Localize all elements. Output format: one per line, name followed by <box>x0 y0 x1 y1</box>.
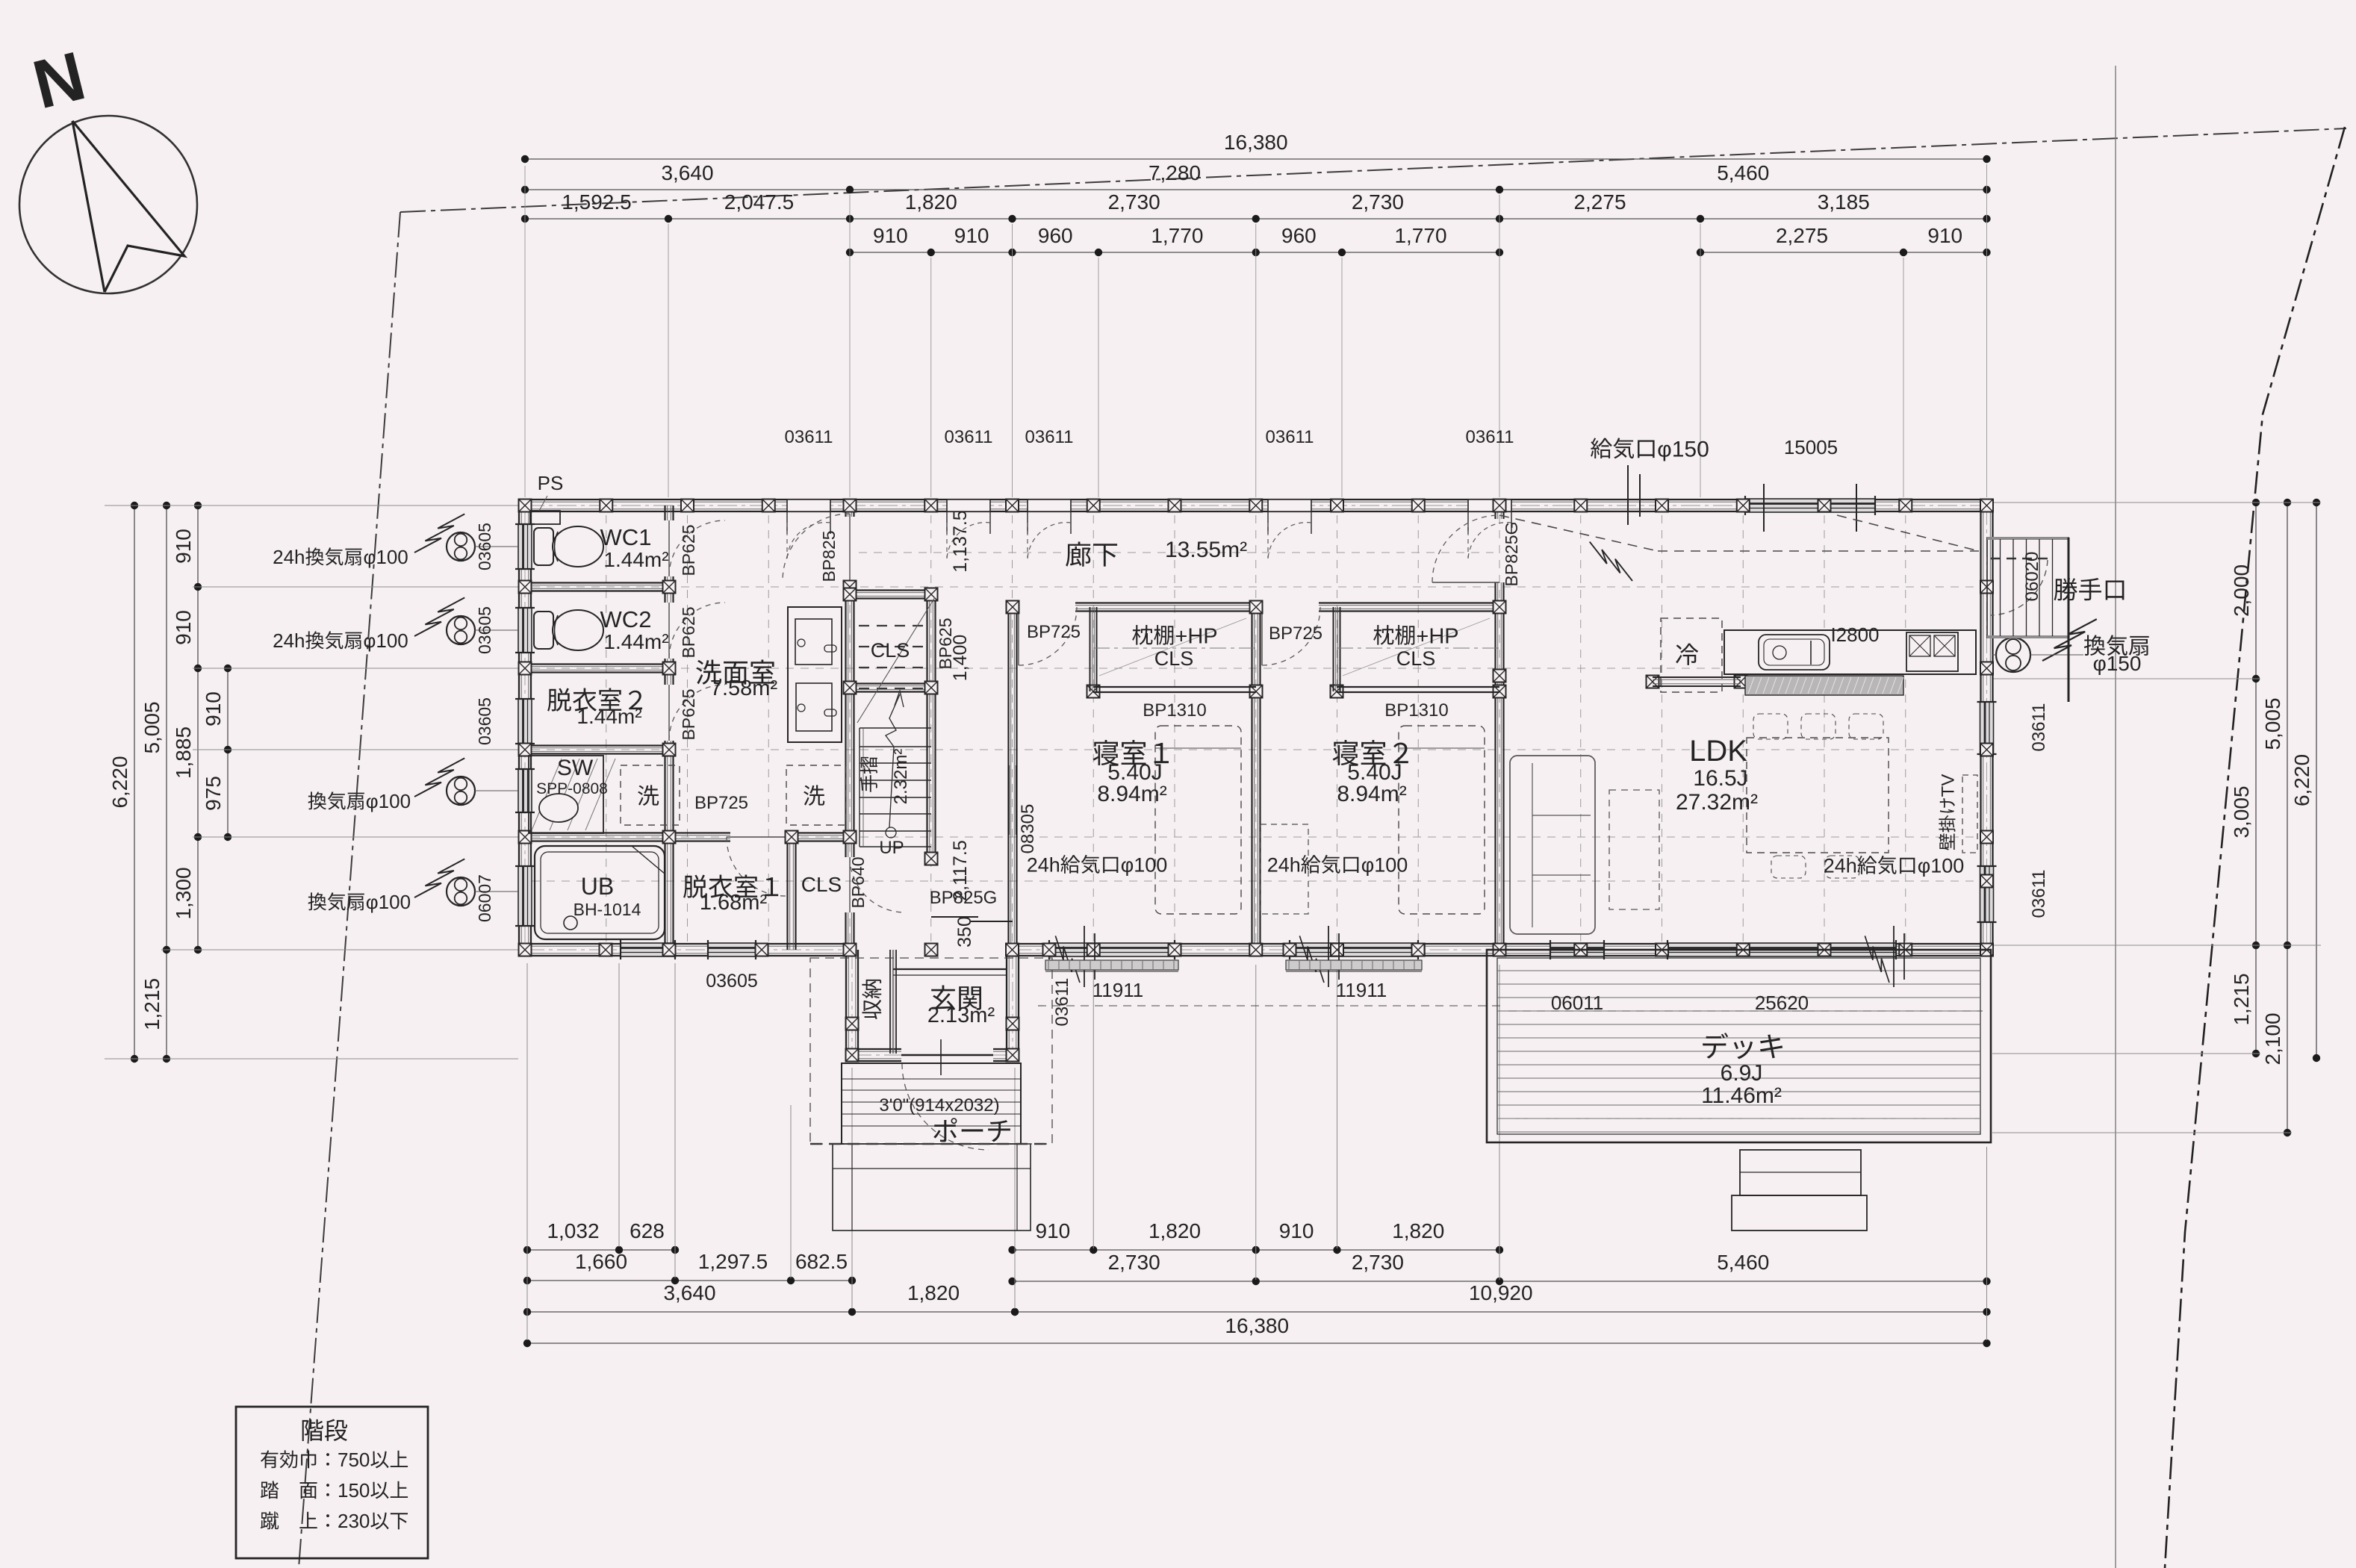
dining table dashed <box>1747 738 1889 853</box>
svg-text:5,460: 5,460 <box>1717 161 1769 184</box>
svg-text:910: 910 <box>172 529 195 564</box>
label rouka <box>1066 542 1117 567</box>
washer box 2 <box>786 765 845 825</box>
genkan block south wall <box>852 1048 901 1050</box>
door datsui1 BP725 <box>727 836 786 838</box>
svg-text:8.94m²: 8.94m² <box>1337 782 1406 806</box>
svg-text:1,297.5: 1,297.5 <box>698 1250 768 1273</box>
corridor swing windows 03611 <box>787 500 830 511</box>
wall datsui2/SW <box>525 744 669 746</box>
wall datsui1 CLS divider <box>786 837 788 950</box>
svg-text:24h: 24h <box>1824 855 1857 877</box>
svg-text:03611: 03611 <box>1052 978 1072 1027</box>
svg-text:16.5J: 16.5J <box>1693 766 1747 791</box>
svg-text:6,220: 6,220 <box>2290 754 2313 806</box>
svg-text:φ150: φ150 <box>2093 652 2142 675</box>
svg-text:03611: 03611 <box>1025 427 1074 447</box>
bottom dimension row 910/1,820/910/1,820 <box>1013 1249 1500 1251</box>
fan kitchen east <box>1996 638 2030 672</box>
top dimension row 3,640 / 7,280 / 5,460 <box>525 189 1987 190</box>
svg-text:2,730: 2,730 <box>1108 190 1160 214</box>
svg-text:3,005: 3,005 <box>2230 785 2253 838</box>
fan WC2 24h <box>447 616 475 644</box>
svg-text:2,047.5: 2,047.5 <box>724 190 794 214</box>
svg-text:1.44m²: 1.44m² <box>576 705 641 728</box>
bedroom2 air inlet <box>1328 926 1329 987</box>
north arrow compass <box>19 116 197 293</box>
svg-text:910: 910 <box>172 610 195 645</box>
svg-text:+HP: +HP <box>1416 624 1458 648</box>
svg-text:1,032: 1,032 <box>547 1219 599 1242</box>
wall WC2/datsui2 <box>525 663 669 665</box>
svg-text:910: 910 <box>1036 1219 1071 1242</box>
toilet WC2 <box>534 612 553 649</box>
svg-text:UP: UP <box>879 838 904 858</box>
door datsui2 to senmen BP625 <box>668 685 670 741</box>
genkan agarikamachi step <box>893 968 1007 970</box>
svg-text:2,275: 2,275 <box>1776 224 1828 247</box>
svg-text:628: 628 <box>630 1219 665 1242</box>
svg-text:03611: 03611 <box>1466 427 1514 447</box>
window datsui1 south 03605 <box>708 943 756 956</box>
bedroom1 west wall <box>1007 607 1009 950</box>
svg-text:BP640: BP640 <box>848 856 868 908</box>
label datsuishitsu1 <box>683 875 778 898</box>
svg-text:1,770: 1,770 <box>1394 224 1446 247</box>
south exterior wall west wing <box>525 943 850 945</box>
svg-text:11.46m²: 11.46m² <box>1701 1083 1782 1108</box>
label genkan <box>931 985 981 1009</box>
window UB south <box>621 943 675 956</box>
left dimension column 6,220 <box>134 505 135 1059</box>
corridor centre dashed line <box>859 552 1494 553</box>
left dimension column 910/975 <box>227 668 229 837</box>
svg-text:1,820: 1,820 <box>907 1281 960 1304</box>
door kitchen back door <box>1991 558 2048 560</box>
svg-text:27.32m²: 27.32m² <box>1676 790 1758 815</box>
svg-text:1,820: 1,820 <box>905 190 957 214</box>
svg-text:1,885: 1,885 <box>172 727 195 779</box>
svg-text:5,460: 5,460 <box>1717 1251 1769 1274</box>
label katteguchi <box>2054 578 2125 600</box>
svg-text:1,820: 1,820 <box>1149 1219 1201 1242</box>
svg-text:7.58m²: 7.58m² <box>710 676 778 700</box>
wall WC1/WC2 <box>525 582 669 583</box>
svg-text:φ100: φ100 <box>366 891 411 913</box>
window east 03611 lower <box>1980 866 1994 922</box>
label senmenshitsu <box>696 660 774 685</box>
svg-text:16,380: 16,380 <box>1224 131 1288 154</box>
label bedroom2 <box>1333 740 1408 765</box>
genkan entrance door <box>901 1054 993 1057</box>
top dimension row 1,592.5 ... 3,185 <box>525 218 1987 220</box>
svg-text:1,660: 1,660 <box>575 1250 627 1273</box>
svg-text:BP625: BP625 <box>679 606 698 658</box>
bottom dimension row 16,380 <box>527 1343 1987 1344</box>
svg-text:3,640: 3,640 <box>663 1281 715 1304</box>
label closet2 <box>1373 624 1458 648</box>
svg-text:CLS: CLS <box>871 639 910 662</box>
deck label <box>1703 1033 1782 1059</box>
toilet WC1 <box>534 528 553 565</box>
label porch <box>933 1118 1010 1142</box>
svg-text:φ100: φ100 <box>364 546 408 568</box>
svg-text:SPP-0808: SPP-0808 <box>536 780 608 797</box>
kitchen stove <box>1906 632 1958 671</box>
porch steps <box>842 1063 1021 1144</box>
svg-text:10,920: 10,920 <box>1469 1281 1533 1304</box>
top extension lines <box>524 166 526 497</box>
bedroom1 air inlet <box>1084 926 1085 987</box>
svg-text:2,730: 2,730 <box>1108 1251 1160 1274</box>
door bedroom2 BP725 <box>1261 607 1263 665</box>
stairs up arrow <box>889 747 894 827</box>
top dimension row 910 ... 910 <box>850 252 1499 253</box>
label bedroom1 <box>1093 740 1169 765</box>
svg-text:CLS: CLS <box>1396 647 1436 670</box>
window WC1 west 03605 <box>518 524 532 569</box>
site line vertical right (solid) <box>2115 66 2116 1568</box>
svg-text:682.5: 682.5 <box>795 1250 848 1273</box>
svg-text:1,137.5: 1,137.5 <box>950 510 971 572</box>
svg-text:910: 910 <box>873 224 908 247</box>
svg-text:2.13m²: 2.13m² <box>927 1004 995 1027</box>
LDK west wall <box>1494 505 1496 519</box>
window bedroom2 south 11911 <box>1290 943 1418 956</box>
right dimension column 2,000/3,005/1,215 <box>2255 503 2257 1054</box>
svg-text:08305: 08305 <box>1018 804 1038 854</box>
door WC1 to senmen BP625 <box>668 520 670 576</box>
pocket window hall wall 08305 <box>1008 765 1010 835</box>
label kabegake TV rotated <box>1939 774 1959 850</box>
svg-text:06007: 06007 <box>475 874 494 922</box>
svg-text:8.94m²: 8.94m² <box>1097 782 1166 806</box>
bed bedroom1 dashed <box>1155 726 1241 914</box>
svg-text:975: 975 <box>202 776 225 811</box>
svg-text:16,380: 16,380 <box>1225 1314 1289 1337</box>
LDK range hood duct dashes <box>1499 515 1658 551</box>
svg-text:11911: 11911 <box>1092 979 1143 1001</box>
svg-text:24h: 24h <box>1027 854 1060 877</box>
door WC2 to senmen BP625 <box>668 603 670 659</box>
wall TV dashed <box>1962 775 1977 853</box>
svg-text:BP1310: BP1310 <box>1384 700 1448 721</box>
right dimension column 6,220 <box>2316 503 2317 1058</box>
sofa <box>1510 756 1595 934</box>
svg-text:2,100: 2,100 <box>2261 1012 2284 1065</box>
wall SW/UB <box>525 832 669 833</box>
bottom dimension row 3,640/1,820/10,920 <box>527 1311 1015 1313</box>
svg-text:03605: 03605 <box>706 971 758 992</box>
svg-text:03611: 03611 <box>2029 870 2049 918</box>
east exterior wall <box>1980 505 1981 950</box>
north exterior wall <box>525 499 1987 500</box>
svg-text:BH-1014: BH-1014 <box>574 900 641 919</box>
labels kankisen west <box>273 546 408 568</box>
left dimension column 910/910/1,885/1,300 <box>197 505 199 950</box>
kitchen peninsula wall <box>1653 676 1741 678</box>
window bedroom1 south 11911 <box>1049 943 1175 956</box>
svg-text:6,220: 6,220 <box>108 756 131 808</box>
svg-text:2,730: 2,730 <box>1352 190 1404 214</box>
svg-text:910: 910 <box>202 691 225 727</box>
svg-text:350: 350 <box>954 916 975 948</box>
svg-text:910: 910 <box>954 224 989 247</box>
svg-text:WC2: WC2 <box>600 606 652 632</box>
door LDK BP825G swing <box>1432 582 1499 583</box>
svg-text:BP825G: BP825G <box>1502 522 1521 587</box>
svg-text:WC1: WC1 <box>600 524 652 550</box>
right dimension column 5,005 / 2,100 <box>2287 503 2288 1133</box>
svg-text:11911: 11911 <box>1336 979 1387 1001</box>
genkan block west wall <box>845 950 847 1055</box>
wall stairs east (vertical) <box>926 594 927 859</box>
svg-text:1.44m²: 1.44m² <box>603 630 668 653</box>
svg-text:TV: TV <box>1939 774 1959 797</box>
svg-text:03611: 03611 <box>2029 703 2049 752</box>
PS pipe shaft <box>530 511 560 524</box>
svg-text:2,275: 2,275 <box>1573 190 1626 214</box>
svg-text:+HP: +HP <box>1175 624 1217 648</box>
label datsuishitsu2 <box>547 688 642 712</box>
svg-text:7,280: 7,280 <box>1149 161 1201 184</box>
window sill bedroom2 <box>1286 965 1422 966</box>
genkan block east wall <box>1006 950 1007 1055</box>
porch roof overhang dashed <box>810 958 1052 1144</box>
svg-text:LDK: LDK <box>1689 735 1747 768</box>
svg-text:1,592.5: 1,592.5 <box>562 190 631 214</box>
bedroom divider wall <box>1251 607 1252 950</box>
interior module grid dashed <box>606 515 607 942</box>
deck steps <box>1740 1150 1861 1195</box>
svg-text:24h: 24h <box>1267 854 1301 877</box>
labels air inlets <box>1027 854 1168 877</box>
SW slop sink <box>529 756 603 833</box>
wall closet hall top <box>850 589 931 591</box>
svg-text:750: 750 <box>338 1449 370 1471</box>
svg-text:1,215: 1,215 <box>2230 973 2253 1025</box>
svg-text:φ100: φ100 <box>1361 854 1408 877</box>
dining chairs dashed <box>1753 714 1788 739</box>
label shuunou <box>862 980 881 1019</box>
svg-text:3'0"(914x2032): 3'0"(914x2032) <box>879 1095 999 1116</box>
bottom extension lines <box>526 963 528 1340</box>
window WC2 west 03605 <box>518 608 532 653</box>
dashed sill line south <box>1038 1005 1501 1007</box>
window east 03611 upper <box>1980 702 1994 754</box>
svg-text:6.9J: 6.9J <box>1721 1061 1763 1086</box>
west exterior wall <box>518 505 520 950</box>
kitchen sink <box>1759 635 1830 670</box>
vanity sink 1 <box>795 619 832 665</box>
svg-text:910: 910 <box>1927 224 1962 247</box>
site boundary east (dash-dot) <box>2165 127 2345 1568</box>
svg-text:15005: 15005 <box>1784 436 1838 458</box>
label kyuukiou top <box>1591 438 1709 462</box>
svg-text:150: 150 <box>338 1479 370 1502</box>
svg-text:CLS: CLS <box>801 873 842 896</box>
left dimension column 5,005 / 1,215 <box>166 505 167 1059</box>
bottom dimension row 1,032/628 <box>527 1249 675 1251</box>
window datsui2 west 03605 <box>518 699 532 744</box>
fan WC1 24h <box>447 532 475 561</box>
svg-text:1,770: 1,770 <box>1151 224 1203 247</box>
stairs steps <box>860 727 931 729</box>
svg-text:03605: 03605 <box>475 697 494 745</box>
svg-text:BP725: BP725 <box>694 793 748 813</box>
svg-text:BP725: BP725 <box>1027 622 1081 642</box>
door bedroom1 BP725 <box>1018 607 1019 665</box>
deck <box>1487 950 1991 1142</box>
svg-text:2,730: 2,730 <box>1352 1251 1404 1274</box>
bed bedroom2 dashed <box>1399 726 1485 914</box>
label tesuri rotated <box>860 757 877 792</box>
fridge dashed <box>1661 618 1722 692</box>
top dimension row 16,380 <box>525 158 1987 160</box>
bottom dimension row 2,730/2,730/5,460 <box>1013 1281 1987 1282</box>
south exterior wall bedrooms-LDK <box>1013 943 1987 945</box>
svg-text:960: 960 <box>1038 224 1073 247</box>
svg-text:PS: PS <box>538 472 564 494</box>
svg-text:1,215: 1,215 <box>140 978 164 1030</box>
wall closet hall bottom <box>850 682 931 684</box>
fan UB <box>447 877 475 906</box>
closet hall shelf dashes <box>859 625 926 626</box>
window kitchen north 15005 <box>1745 499 1875 512</box>
svg-text:5,005: 5,005 <box>140 701 164 753</box>
svg-text:5,005: 5,005 <box>2261 697 2284 750</box>
door senmen to corridor BP825 <box>849 514 851 581</box>
closet bedroom1 <box>1090 607 1091 691</box>
LDK air inlet <box>1893 926 1895 987</box>
svg-text:1,400: 1,400 <box>950 635 971 682</box>
site boundary west (dash-dot) <box>299 212 400 1568</box>
stairs legend box <box>236 1407 428 1558</box>
kitchen counter I2800 <box>1724 630 1976 674</box>
sliding door LDK deck 25620 <box>1667 943 1896 956</box>
svg-text:SW: SW <box>557 756 594 780</box>
window SW west <box>518 769 532 812</box>
label closet1 <box>1132 624 1217 648</box>
svg-text:1,300: 1,300 <box>172 867 195 919</box>
closet bedroom2 <box>1333 607 1334 691</box>
svg-text:1.44m²: 1.44m² <box>603 548 668 571</box>
svg-text:24h: 24h <box>273 546 305 568</box>
sill band bedroom2 <box>1286 960 1422 970</box>
bottom dimension row 1,660/1,297.5/682.5 <box>527 1280 852 1281</box>
fan SW <box>447 777 475 805</box>
svg-text:I2800: I2800 <box>1830 623 1879 646</box>
svg-text:1,820: 1,820 <box>1392 1219 1444 1242</box>
sill band bedroom1 <box>1045 960 1178 970</box>
svg-text:BP825: BP825 <box>819 530 839 582</box>
wall senmen right / stairs (vertical) <box>845 505 846 517</box>
svg-text:24h: 24h <box>273 629 305 652</box>
svg-text:2,000: 2,000 <box>2230 564 2253 617</box>
site boundary north (dash-dot) <box>400 128 2346 212</box>
left extension lines <box>105 505 518 506</box>
svg-text:910: 910 <box>1279 1219 1314 1242</box>
svg-text:φ150: φ150 <box>1657 438 1709 462</box>
genkan shuunou partition <box>889 950 891 1054</box>
svg-text:2.32m²: 2.32m² <box>891 749 911 805</box>
porch apron <box>833 1144 1031 1231</box>
svg-text:03611: 03611 <box>1266 427 1314 447</box>
right extension lines <box>1992 502 2321 503</box>
svg-text:03611: 03611 <box>785 427 833 447</box>
coffee table dashed <box>1609 790 1659 909</box>
vanity counter <box>788 607 842 742</box>
svg-text:φ100: φ100 <box>1918 855 1965 877</box>
wall west wing / senmen (vertical) <box>664 505 665 520</box>
svg-text:φ100: φ100 <box>364 629 408 652</box>
window LDK south 06011 <box>1550 943 1604 956</box>
svg-text:06020: 06020 <box>2022 552 2042 602</box>
kyuukiou duct top <box>1627 465 1629 525</box>
svg-text:1.68m²: 1.68m² <box>700 891 768 915</box>
svg-text:03605: 03605 <box>475 606 494 654</box>
svg-text:3,185: 3,185 <box>1818 190 1870 214</box>
svg-text:230: 230 <box>338 1510 370 1532</box>
svg-text:UB: UB <box>581 873 614 900</box>
svg-text:03605: 03605 <box>475 523 494 570</box>
svg-text:2,117.5: 2,117.5 <box>950 840 971 901</box>
svg-text:φ100: φ100 <box>1121 854 1168 877</box>
kitchen window mullion ticks <box>1763 484 1765 532</box>
svg-text:960: 960 <box>1281 224 1317 247</box>
top dimension row right 2,275 / 910 <box>1700 252 1987 253</box>
wall senmen/datsui1 <box>669 832 730 833</box>
svg-text:BP625: BP625 <box>679 688 698 740</box>
window sill bedroom1 <box>1045 965 1178 966</box>
svg-text:BP1310: BP1310 <box>1143 700 1206 721</box>
wall posts <box>519 500 532 512</box>
hall sliding door BP825G <box>931 916 978 918</box>
bedroom north wall <box>1013 602 1019 603</box>
window UB west 06007 <box>518 866 532 926</box>
vanity sink 2 <box>796 683 832 731</box>
svg-text:BP625: BP625 <box>679 524 698 576</box>
svg-text:03611: 03611 <box>945 427 993 447</box>
katteguchi steps <box>1987 538 2069 638</box>
door hall BP640 <box>849 857 851 912</box>
UB bathtub BH-1014 <box>535 846 665 939</box>
svg-text:3,640: 3,640 <box>661 161 713 184</box>
bedside dashed bedroom1 <box>1261 824 1308 914</box>
svg-text:φ100: φ100 <box>366 790 411 812</box>
washer box 1 <box>621 765 680 825</box>
kitchen counter hatch front <box>1745 676 1903 695</box>
svg-text:CLS: CLS <box>1154 647 1194 670</box>
svg-text:13.55m²: 13.55m² <box>1165 538 1247 562</box>
svg-text:BP725: BP725 <box>1269 623 1322 644</box>
label kankisen kitchen <box>2084 635 2149 656</box>
